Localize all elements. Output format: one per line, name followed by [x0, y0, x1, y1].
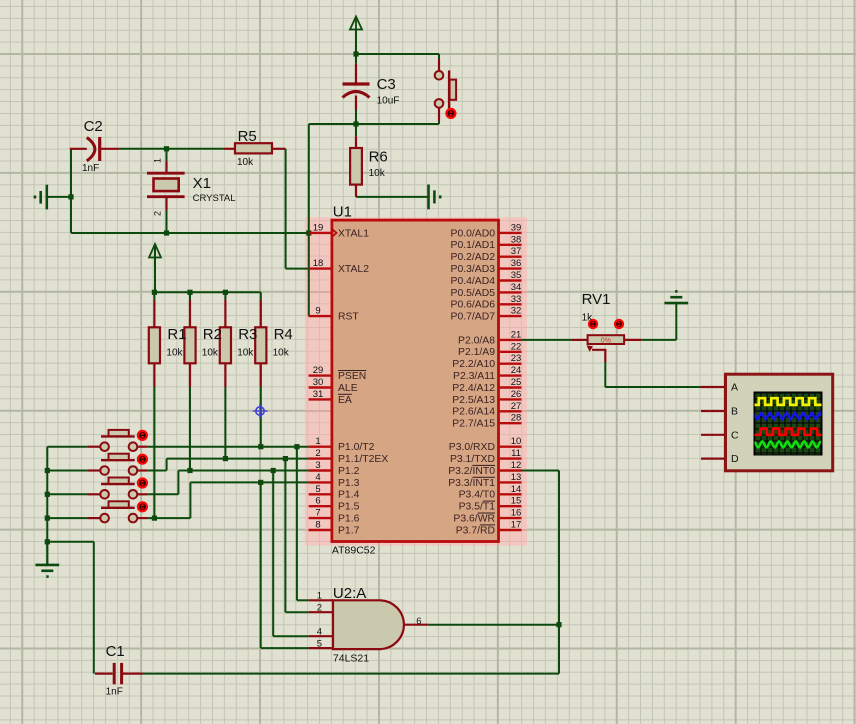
svg-text:RV1: RV1	[582, 291, 611, 308]
svg-text:D: D	[731, 453, 739, 465]
svg-text:C2: C2	[84, 118, 103, 135]
svg-text:16: 16	[511, 508, 522, 519]
svg-text:P1.3: P1.3	[338, 478, 360, 489]
svg-text:22: 22	[511, 341, 522, 352]
svg-text:1: 1	[315, 436, 320, 447]
svg-text:P0.4/AD4: P0.4/AD4	[451, 276, 496, 287]
svg-text:1: 1	[153, 158, 163, 163]
svg-text:37: 37	[511, 246, 522, 257]
svg-text:5: 5	[315, 484, 320, 495]
svg-text:P0.6/AD6: P0.6/AD6	[451, 300, 496, 311]
svg-text:39: 39	[511, 222, 522, 233]
svg-text:C: C	[731, 429, 739, 441]
svg-text:6: 6	[315, 496, 320, 507]
svg-text:R6: R6	[369, 148, 388, 165]
svg-text:PSEN: PSEN	[338, 371, 366, 382]
svg-text:P0.5/AD5: P0.5/AD5	[451, 288, 496, 299]
svg-text:RST: RST	[338, 312, 359, 323]
svg-text:R5: R5	[238, 128, 257, 145]
svg-text:13: 13	[511, 472, 522, 483]
svg-text:R3: R3	[238, 326, 257, 343]
svg-text:17: 17	[511, 520, 522, 531]
svg-text:25: 25	[511, 377, 522, 388]
svg-text:XTAL1: XTAL1	[338, 228, 369, 239]
svg-text:P1.4: P1.4	[338, 490, 360, 501]
svg-text:10k: 10k	[273, 348, 290, 359]
svg-text:3: 3	[315, 460, 320, 471]
svg-text:19: 19	[313, 222, 324, 233]
svg-text:P1.6: P1.6	[338, 514, 360, 525]
svg-text:6: 6	[416, 616, 421, 627]
svg-text:8: 8	[315, 520, 320, 531]
svg-text:EA: EA	[338, 395, 352, 406]
svg-text:26: 26	[511, 389, 522, 400]
svg-text:10k: 10k	[369, 168, 386, 179]
svg-text:X1: X1	[193, 175, 211, 192]
svg-text:23: 23	[511, 353, 522, 364]
svg-text:10k: 10k	[237, 157, 254, 168]
svg-text:B: B	[731, 406, 738, 418]
svg-text:P1.1/T2EX: P1.1/T2EX	[338, 454, 388, 465]
svg-text:P0.3/AD3: P0.3/AD3	[451, 264, 496, 275]
svg-text:28: 28	[511, 413, 522, 424]
svg-text:P1.7: P1.7	[338, 525, 360, 536]
svg-text:4: 4	[315, 472, 320, 483]
svg-text:10k: 10k	[166, 348, 183, 359]
svg-text:2: 2	[317, 602, 322, 613]
svg-text:10: 10	[511, 436, 522, 447]
svg-text:P3.5/T1: P3.5/T1	[459, 502, 496, 513]
svg-text:4: 4	[317, 626, 322, 637]
svg-text:P2.6/A14: P2.6/A14	[452, 407, 495, 418]
svg-text:C1: C1	[106, 643, 125, 660]
svg-text:P0.1/AD1: P0.1/AD1	[451, 240, 496, 251]
svg-text:P2.7/A15: P2.7/A15	[452, 419, 495, 430]
svg-text:P2.0/A8: P2.0/A8	[458, 335, 495, 346]
svg-text:15: 15	[511, 496, 522, 507]
svg-text:P0.7/AD7: P0.7/AD7	[451, 312, 496, 323]
svg-text:10k: 10k	[202, 348, 219, 359]
svg-text:P2.3/A11: P2.3/A11	[453, 371, 495, 382]
svg-text:P2.4/A12: P2.4/A12	[452, 383, 495, 394]
svg-text:P2.5/A13: P2.5/A13	[452, 395, 495, 406]
svg-text:12: 12	[511, 460, 522, 471]
svg-text:AT89C52: AT89C52	[332, 544, 376, 556]
svg-text:27: 27	[511, 401, 522, 412]
svg-text:C3: C3	[377, 76, 396, 93]
svg-text:P3.1/TXD: P3.1/TXD	[450, 454, 495, 465]
svg-text:P0.0/AD0: P0.0/AD0	[451, 228, 496, 239]
svg-text:P1.5: P1.5	[338, 502, 360, 513]
svg-text:31: 31	[313, 389, 324, 400]
svg-text:1nF: 1nF	[82, 163, 99, 174]
svg-text:P1.2: P1.2	[338, 466, 360, 477]
svg-text:74LS21: 74LS21	[333, 652, 369, 664]
svg-text:1nF: 1nF	[106, 687, 123, 698]
svg-text:P3.0/RXD: P3.0/RXD	[449, 442, 495, 453]
svg-text:U1: U1	[333, 204, 352, 221]
svg-text:33: 33	[511, 294, 522, 305]
svg-text:21: 21	[511, 329, 522, 340]
svg-text:2: 2	[315, 448, 320, 459]
svg-text:36: 36	[511, 258, 522, 269]
svg-text:30: 30	[313, 377, 324, 388]
svg-text:18: 18	[313, 258, 324, 269]
svg-text:11: 11	[511, 448, 521, 459]
svg-text:35: 35	[511, 270, 522, 281]
svg-text:29: 29	[313, 365, 324, 376]
svg-text:CRYSTAL: CRYSTAL	[193, 193, 236, 204]
svg-text:34: 34	[511, 282, 522, 293]
svg-text:R2: R2	[203, 326, 222, 343]
svg-text:38: 38	[511, 234, 522, 245]
svg-text:24: 24	[511, 365, 522, 376]
svg-text:P0.2/AD2: P0.2/AD2	[451, 252, 496, 263]
svg-text:P2.1/A9: P2.1/A9	[458, 347, 495, 358]
svg-text:P2.2/A10: P2.2/A10	[452, 359, 495, 370]
svg-text:10uF: 10uF	[377, 96, 400, 107]
svg-text:2: 2	[153, 211, 163, 216]
svg-text:0%: 0%	[601, 337, 611, 344]
svg-text:P3.6/WR: P3.6/WR	[453, 514, 495, 525]
svg-text:R1: R1	[167, 326, 186, 343]
svg-text:32: 32	[511, 306, 522, 317]
svg-text:P3.4/T0: P3.4/T0	[459, 490, 496, 501]
svg-text:P3.7/RD: P3.7/RD	[456, 525, 495, 536]
svg-text:14: 14	[511, 484, 522, 495]
svg-text:R4: R4	[274, 326, 293, 343]
svg-text:5: 5	[317, 638, 322, 649]
svg-text:7: 7	[315, 508, 320, 519]
svg-text:9: 9	[315, 306, 320, 317]
svg-text:U2:A: U2:A	[333, 585, 366, 602]
svg-text:P3.2/INT0: P3.2/INT0	[448, 466, 495, 477]
svg-text:P1.0/T2: P1.0/T2	[338, 442, 375, 453]
svg-text:A: A	[731, 382, 738, 394]
svg-text:P3.3/INT1: P3.3/INT1	[448, 478, 495, 489]
svg-text:1k: 1k	[582, 312, 594, 323]
svg-text:1: 1	[317, 591, 322, 602]
svg-text:ALE: ALE	[338, 383, 358, 394]
svg-text:XTAL2: XTAL2	[338, 264, 369, 275]
svg-text:10k: 10k	[237, 348, 254, 359]
